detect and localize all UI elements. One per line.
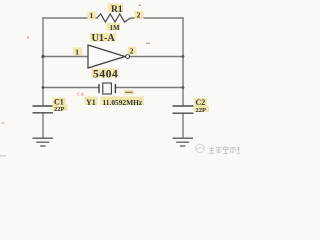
svg-text:1: 1 <box>90 11 94 20</box>
svg-text:2: 2 <box>130 47 134 56</box>
svg-text:C4: C4 <box>77 92 84 98</box>
svg-text:R1: R1 <box>111 5 123 15</box>
svg-text:Y1: Y1 <box>86 98 96 107</box>
svg-text:22P: 22P <box>54 106 65 113</box>
svg-text:C2: C2 <box>196 98 206 107</box>
svg-text:5404: 5404 <box>93 69 118 81</box>
svg-text:U1-A: U1-A <box>92 33 116 44</box>
svg-text:22P: 22P <box>196 107 207 114</box>
svg-text:1: 1 <box>75 48 79 57</box>
svg-text:2: 2 <box>137 11 141 20</box>
svg-text:1M: 1M <box>110 24 121 32</box>
svg-text:11.0592MHz: 11.0592MHz <box>103 98 143 107</box>
